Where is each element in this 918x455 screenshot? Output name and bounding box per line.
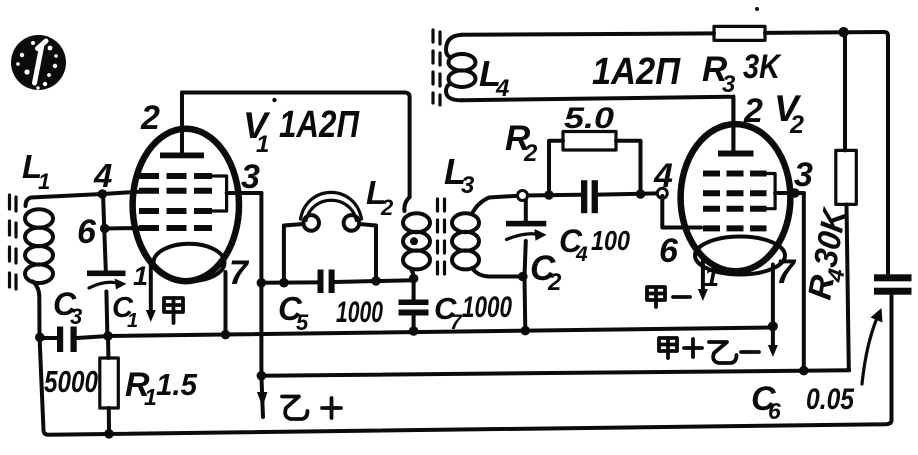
V1 pin 7 wire — [224, 272, 228, 334]
top rail: L4 to R3 to right edge — [462, 33, 714, 34]
V1 plate lead (pin 2) — [180, 93, 184, 153]
headphones — [284, 192, 376, 282]
label L3 — [444, 151, 475, 199]
V2 pin7 arrow — [768, 326, 778, 357]
label L4 — [479, 53, 509, 102]
grid coupling wire — [523, 193, 582, 198]
inductor L3 (secondary) — [452, 196, 523, 277]
filament bus (甲+乙-) — [108, 328, 773, 337]
svg-text:2: 2 — [743, 92, 763, 130]
label C3 — [53, 286, 82, 329]
node 4 — [98, 189, 108, 199]
svg-text:3: 3 — [794, 156, 813, 194]
svg-text:3: 3 — [70, 304, 82, 329]
speck — [755, 7, 759, 11]
svg-text:3: 3 — [461, 172, 475, 199]
svg-text:1: 1 — [256, 131, 269, 158]
wire: node 6 to V1 grid (pin 6) — [105, 226, 141, 231]
L1 ferrite core (dashed) — [10, 195, 17, 291]
svg-text:100: 100 — [591, 225, 630, 256]
svg-text:5.0: 5.0 — [564, 102, 614, 135]
label C4 100 — [559, 223, 630, 266]
label R1 1.5 — [125, 366, 198, 410]
V2 plate lead (pin 2) — [731, 97, 735, 151]
wire: L4 bottom to V2 plate — [462, 97, 733, 150]
svg-text:1000: 1000 — [336, 296, 383, 329]
svg-text:3: 3 — [241, 158, 260, 196]
label L2 — [366, 174, 394, 220]
V1 screen bracket to pin 3 — [212, 176, 227, 211]
label 甲— (V2 filament minus) — [647, 287, 690, 307]
svg-text:5000: 5000 — [44, 364, 98, 399]
V2 pin 1 arrow — [698, 257, 708, 301]
label L1 — [22, 148, 50, 194]
svg-text:1: 1 — [133, 261, 148, 291]
label C6 — [751, 380, 781, 424]
figure number badge (circled 1) — [11, 35, 66, 90]
resistor R1 — [100, 331, 119, 434]
transformer core L2/L3 (dashed) — [438, 199, 445, 281]
label R4 30K (rotated) — [800, 204, 859, 303]
svg-text:4: 4 — [93, 157, 112, 194]
wire: V1 pin3/screen supply vertical — [259, 193, 263, 376]
variable capacitor C1 — [87, 271, 127, 337]
L4 core (dashed) — [433, 30, 440, 105]
svg-text:1: 1 — [38, 169, 50, 194]
label 乙+ — [282, 397, 341, 420]
svg-text:1.5: 1.5 — [156, 367, 198, 402]
svg-text:3K: 3K — [743, 48, 782, 86]
svg-text:1А2П: 1А2П — [279, 104, 360, 146]
label C7 — [434, 291, 463, 334]
inductor L4 (feedback) — [446, 35, 476, 101]
svg-text:2: 2 — [789, 111, 804, 139]
svg-text:0.05: 0.05 — [806, 383, 855, 416]
capacitor C3 — [40, 327, 108, 353]
svg-text:6: 6 — [768, 398, 781, 424]
svg-text:1000: 1000 — [462, 291, 512, 324]
label C5 — [278, 290, 309, 335]
resistor R4 — [836, 32, 857, 370]
C6 pointer arrow — [862, 308, 883, 384]
wire: V1 plate to L2 top — [182, 93, 410, 198]
capacitor C4 — [581, 180, 598, 213]
V2 screen bracket to pin 3 — [767, 174, 776, 209]
svg-text:6: 6 — [659, 232, 679, 270]
V1 anode plate — [160, 153, 204, 159]
svg-text:2: 2 — [523, 140, 538, 167]
label V2 — [774, 88, 804, 139]
B+ arrow (乙+) — [257, 376, 268, 417]
capacitor C5 — [318, 270, 335, 294]
vacuum tube V2 envelope — [681, 124, 791, 271]
svg-text:2: 2 — [547, 269, 562, 296]
resistor R2 — [549, 132, 641, 196]
svg-text:7: 7 — [229, 254, 250, 292]
variable capacitor C2 — [506, 196, 547, 336]
svg-text:2: 2 — [380, 195, 394, 220]
svg-text:1: 1 — [144, 384, 157, 410]
svg-text:7: 7 — [776, 253, 797, 291]
transformer primary L2 — [403, 197, 430, 279]
label R3 — [702, 50, 736, 98]
label C2 — [530, 249, 562, 296]
inductor L1 — [25, 198, 53, 337]
V2 pin3 wire down — [802, 193, 806, 370]
bottom rail — [40, 336, 892, 435]
V1 grid rows (dashed) — [139, 176, 212, 228]
svg-text:6: 6 — [77, 213, 97, 251]
svg-text:1А2П: 1А2П — [592, 51, 681, 93]
V1 bottom ellipse (base) — [154, 244, 225, 282]
wire: node 4 down to C1 — [103, 194, 106, 271]
label V1 — [243, 105, 271, 158]
svg-text:4: 4 — [575, 243, 588, 266]
wire: L1 top to node 4 to V1 grid (pin 4) — [31, 192, 142, 198]
node: top rail / R4 — [838, 27, 848, 37]
node 6 — [100, 224, 110, 234]
vacuum tube V1 envelope — [133, 129, 239, 281]
B+ bus (乙+) — [261, 370, 849, 375]
capacitor C6 — [874, 274, 912, 420]
svg-text:5: 5 — [296, 310, 309, 335]
V2 anode plate — [718, 151, 754, 157]
label R2 — [505, 119, 538, 167]
resistor R3 — [714, 26, 765, 40]
V2 pin6 bracket — [662, 196, 701, 228]
label 甲+乙— — [659, 338, 759, 363]
wire: C5 bus — [261, 280, 317, 284]
label 甲 (V1 filament) — [164, 298, 183, 323]
svg-text:4: 4 — [653, 157, 673, 195]
V1 pin 1 arrow — [146, 264, 156, 322]
V2 bottom ellipse (base) — [695, 237, 785, 275]
svg-text:1: 1 — [704, 262, 719, 292]
svg-text:3: 3 — [722, 71, 736, 98]
V2 pin 7 wire — [771, 265, 775, 327]
V2 grid rows (dashed) — [703, 174, 767, 229]
svg-text:2: 2 — [140, 99, 160, 137]
svg-text:1: 1 — [127, 310, 138, 332]
capacitor C7 — [399, 274, 429, 336]
label C1 — [112, 292, 138, 332]
